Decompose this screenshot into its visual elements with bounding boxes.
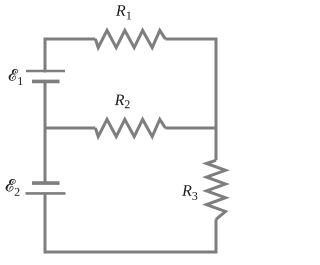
resistor R1 <box>95 30 165 47</box>
label R3: R <box>182 185 192 195</box>
label R2: R <box>115 95 125 105</box>
wire: below R3, bottom-right corner, bottom, up to battery E2 <box>45 193 216 252</box>
label E1: script E <box>9 69 18 80</box>
label R1: subscript 1 <box>127 11 131 19</box>
wire: between battery E2 and battery E1 <box>44 81 47 183</box>
battery E1 positive plate <box>26 70 65 73</box>
resistor R2 <box>95 119 165 136</box>
battery E2 positive plate <box>26 192 66 195</box>
label E2: script E <box>6 179 16 191</box>
battery E2 negative plate <box>32 181 60 185</box>
wire: R2 to right wire <box>165 127 216 130</box>
label R3: subscript 3 <box>192 192 197 200</box>
label E1: subscript 1 <box>18 77 22 85</box>
resistor R3 <box>207 160 226 219</box>
label E2: subscript 2 <box>15 188 20 196</box>
wire: top-left corner, from battery E1 up and across to R1 <box>45 39 95 73</box>
label R1: R <box>116 5 126 15</box>
label R2: subscript 2 <box>125 100 130 108</box>
battery E1 negative plate <box>32 80 60 84</box>
wire: R1 to top-right corner, down to R3 <box>165 39 216 160</box>
wire: left wire to R2 <box>45 127 95 130</box>
